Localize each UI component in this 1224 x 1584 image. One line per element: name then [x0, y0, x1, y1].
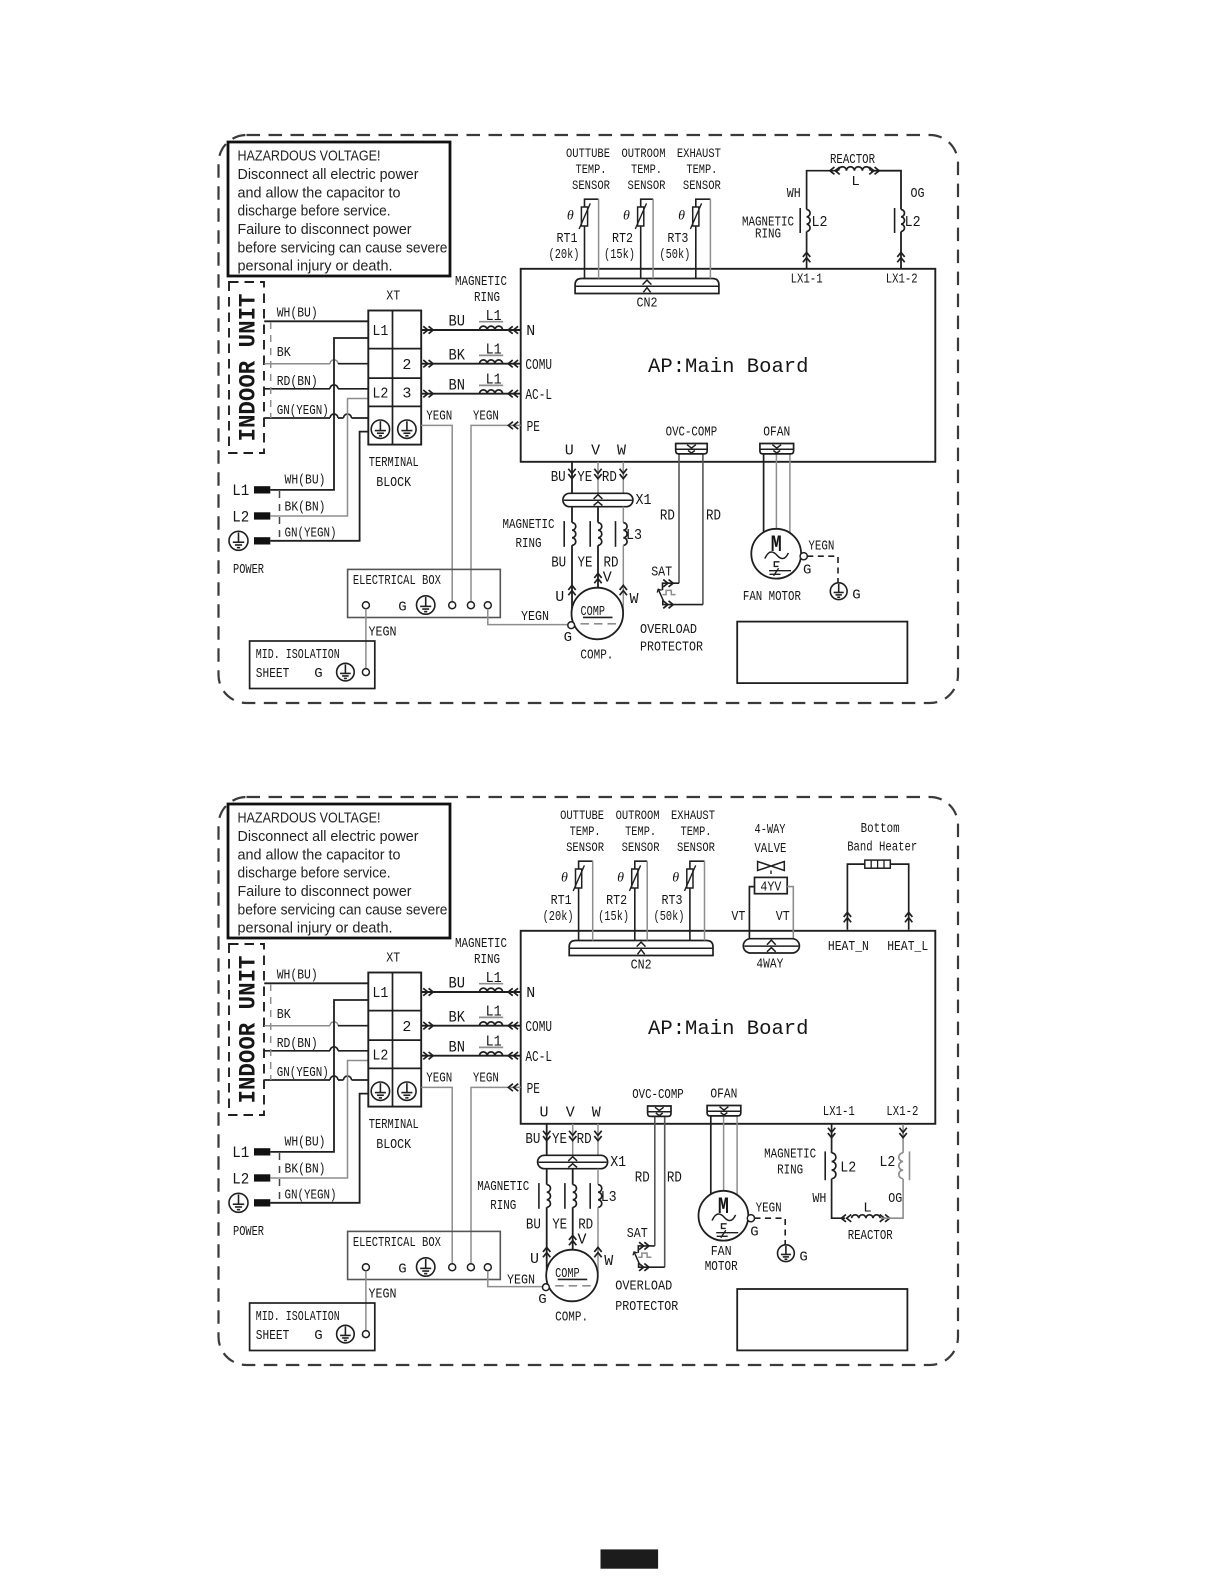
- arrows down on U V W wires: [568, 469, 575, 479]
- magnetic ring core bar over BK coil: [479, 1016, 503, 1018]
- svg-text:L1: L1: [486, 1004, 502, 1021]
- svg-text:Disconnect all electric power: Disconnect all electric power: [238, 166, 419, 183]
- wire YEGN from XT to electrical box: [421, 1087, 452, 1263]
- connector X1: [538, 1155, 608, 1168]
- svg-text:RT3: RT3: [667, 232, 688, 247]
- wire GN(YEGN) indoor unit to XT with two hops: [264, 1076, 368, 1080]
- svg-text:OG: OG: [888, 1192, 902, 1207]
- reactor inductor L: [839, 167, 871, 171]
- svg-text:OVERLOAD: OVERLOAD: [640, 623, 697, 638]
- arrow up on U compressor wire: [543, 1247, 550, 1257]
- svg-text:BLOCK: BLOCK: [376, 476, 412, 491]
- temp sensor RT2 leads: [635, 861, 647, 869]
- isolation sheet earth symbol: [337, 663, 355, 681]
- svg-text:L: L: [851, 174, 859, 190]
- compressor underline: [583, 616, 613, 618]
- wire HEAT_L heater to board: [890, 864, 908, 930]
- compressor motor circle COMP: [546, 1250, 598, 1302]
- wire W main board to X1: [597, 1124, 599, 1156]
- svg-text:YE: YE: [552, 1131, 567, 1148]
- svg-text:BK(BN): BK(BN): [285, 1162, 326, 1177]
- svg-text:4-WAY: 4-WAY: [755, 823, 786, 838]
- svg-text:MOTOR: MOTOR: [705, 1260, 738, 1275]
- compressor ground terminal circle: [543, 1284, 550, 1291]
- compressor dashed line: [555, 1285, 592, 1287]
- svg-text:4YV: 4YV: [760, 880, 782, 895]
- svg-text:L2: L2: [812, 214, 828, 231]
- svg-text:MID. ISOLATION: MID. ISOLATION: [256, 648, 340, 663]
- svg-text:TEMP.: TEMP.: [681, 824, 712, 839]
- svg-text:YEGN: YEGN: [756, 1202, 782, 1217]
- svg-text:(20k): (20k): [543, 910, 574, 925]
- svg-text:HEAT_N: HEAT_N: [828, 940, 869, 955]
- svg-text:BN: BN: [448, 376, 465, 394]
- svg-text:U: U: [539, 1104, 548, 1121]
- svg-text:AP:Main Board: AP:Main Board: [648, 356, 809, 379]
- terminal block XT outline: [368, 311, 421, 445]
- wire RD right OVC-COMP to overload protector: [702, 454, 704, 605]
- svg-text:G: G: [538, 1292, 546, 1308]
- wire OFAN right to fan motor: [789, 454, 791, 533]
- svg-text:L2: L2: [905, 214, 921, 231]
- wire reactor to L2 right: [871, 171, 901, 210]
- svg-text:(50k): (50k): [654, 910, 685, 925]
- svg-text:PROTECTOR: PROTECTOR: [640, 640, 703, 655]
- svg-text:SENSOR: SENSOR: [566, 840, 604, 855]
- arrows up on LX1-2 wire: [897, 252, 904, 262]
- svg-text:YEGN: YEGN: [473, 1072, 499, 1087]
- electrical box terminal circle YEGN to compressor: [484, 602, 491, 609]
- hazardous voltage warning box: [228, 804, 450, 938]
- nameplate blank box: [737, 622, 907, 684]
- svg-text:MAGNETIC: MAGNETIC: [477, 1180, 529, 1195]
- svg-text:G: G: [852, 588, 860, 604]
- svg-text:RD: RD: [635, 1170, 650, 1187]
- svg-text:RING: RING: [755, 227, 781, 242]
- wire YE coil to compressor: [572, 1207, 574, 1249]
- thermistor RT3 body: [693, 207, 699, 226]
- wire VT right 4YV to 4WAY connector: [787, 887, 793, 939]
- magnetic ring inductor L2 left: [832, 1153, 836, 1179]
- svg-text:YE: YE: [552, 1216, 567, 1233]
- svg-text:N: N: [526, 985, 535, 1002]
- electrical box terminal circle YEGN from XT: [449, 1264, 456, 1271]
- dashed link valve to 4YV coil: [770, 871, 772, 878]
- svg-text:ELECTRICAL BOX: ELECTRICAL BOX: [353, 574, 441, 589]
- svg-text:W: W: [592, 1104, 601, 1121]
- wire BK indoor unit to XT with hop: [264, 360, 338, 364]
- svg-text:AP:Main Board: AP:Main Board: [648, 1018, 809, 1041]
- svg-text:BU: BU: [525, 1131, 540, 1148]
- svg-text:TEMP.: TEMP.: [686, 162, 717, 177]
- inductor L1 on BK wire: [480, 1022, 503, 1026]
- wire PE from main board to electrical box: [471, 1087, 521, 1263]
- wire HEAT_N heater to board: [847, 864, 864, 930]
- indoor unit dashed box: [229, 944, 264, 1115]
- svg-text:G: G: [564, 630, 572, 646]
- svg-text:personal injury or death.: personal injury or death.: [238, 258, 393, 275]
- electrical box terminal circle YEGN from PE: [467, 1264, 474, 1271]
- svg-text:POWER: POWER: [233, 562, 264, 578]
- svg-text:WH(BU): WH(BU): [285, 473, 326, 488]
- XT divider lines: [368, 973, 421, 1107]
- svg-text:AC-L: AC-L: [525, 387, 552, 404]
- svg-text:OUTTUBE: OUTTUBE: [560, 808, 604, 823]
- svg-text:θ: θ: [561, 871, 568, 886]
- svg-text:FAN MOTOR: FAN MOTOR: [743, 590, 801, 605]
- svg-text:OVC-COMP: OVC-COMP: [666, 425, 718, 440]
- connector arrows right of reactor: [869, 167, 879, 174]
- svg-text:V: V: [566, 1104, 575, 1121]
- mid isolation sheet box: [250, 1303, 375, 1351]
- electrical box earth symbol: [417, 1258, 435, 1276]
- svg-text:SENSOR: SENSOR: [572, 178, 610, 193]
- svg-text:CN2: CN2: [631, 959, 652, 974]
- svg-text:WH(BU): WH(BU): [277, 306, 318, 321]
- svg-text:RT2: RT2: [612, 232, 633, 247]
- svg-text:L2: L2: [232, 1170, 249, 1188]
- svg-text:BK: BK: [448, 1008, 465, 1026]
- svg-text:L3: L3: [601, 1189, 617, 1206]
- svg-text:MAGNETIC: MAGNETIC: [503, 518, 555, 533]
- power cable bundle dashed tie: [279, 1153, 281, 1202]
- magnetic ring core bar over BN coil: [479, 1046, 503, 1048]
- wire YEGN from XT to electrical box: [421, 425, 452, 601]
- svg-text:YEGN: YEGN: [521, 610, 549, 625]
- svg-text:TEMP.: TEMP.: [625, 824, 656, 839]
- hazardous voltage warning box: [228, 142, 450, 276]
- svg-text:GN(YEGN): GN(YEGN): [285, 526, 337, 541]
- magnetic ring core bar over BN coil: [479, 384, 503, 386]
- svg-text:RT1: RT1: [557, 232, 578, 247]
- AP main board outline: [521, 269, 936, 462]
- svg-text:WH: WH: [787, 187, 801, 202]
- connector arrows on BU wire: [423, 326, 433, 333]
- compressor underline: [558, 1278, 588, 1280]
- wire V main board to X1: [597, 462, 599, 494]
- wire OFAN left to fan motor: [763, 454, 765, 532]
- svg-text:Bottom: Bottom: [861, 822, 900, 837]
- svg-text:G: G: [803, 562, 811, 578]
- lower diagram outer dashed border: [219, 797, 959, 1365]
- svg-text:OUTTUBE: OUTTUBE: [566, 146, 610, 161]
- wire OFAN middle to fan motor: [723, 1116, 725, 1191]
- svg-text:Disconnect all electric power: Disconnect all electric power: [238, 828, 419, 845]
- wire RD coil to compressor: [597, 1207, 599, 1273]
- overload protector switch SAT: [638, 1246, 655, 1253]
- svg-text:and allow the capacitor to: and allow the capacitor to: [238, 846, 401, 863]
- magnetic ring inductor on YE wire: [598, 523, 602, 546]
- connector arrows on BU wire: [423, 988, 433, 995]
- connector arrows on BN wire: [423, 390, 433, 397]
- wire WH(BU) indoor unit to XT: [264, 320, 368, 322]
- svg-text:X1: X1: [610, 1154, 626, 1171]
- svg-text:RING: RING: [516, 537, 542, 552]
- connector arrows on BK wire: [423, 1022, 433, 1029]
- electrical box terminal circle YEGN from XT: [449, 602, 456, 609]
- svg-text:YEGN: YEGN: [473, 410, 499, 425]
- svg-text:before servicing can cause sev: before servicing can cause severe: [238, 239, 448, 256]
- svg-text:L1: L1: [486, 970, 502, 987]
- svg-text:before servicing can cause sev: before servicing can cause severe: [238, 901, 448, 918]
- temp sensor RT3 leads: [696, 199, 711, 207]
- wire L1 power to XT row1: [270, 338, 368, 490]
- wire BK indoor unit to XT with hop: [264, 1022, 338, 1026]
- wire RD left OVC-COMP to overload protector: [678, 454, 680, 583]
- indoor unit dashed box: [229, 282, 264, 453]
- overload protector switch SAT: [663, 583, 680, 590]
- svg-text:L3: L3: [626, 527, 642, 544]
- wire BU XT to main board: [421, 329, 521, 331]
- ground earth symbol at fan motor: [778, 1245, 795, 1262]
- svg-text:(15k): (15k): [604, 248, 635, 263]
- svg-text:OVERLOAD: OVERLOAD: [615, 1279, 672, 1294]
- svg-text:θ: θ: [623, 209, 630, 224]
- wire BK XT to main board: [421, 1025, 521, 1027]
- svg-text:VALVE: VALVE: [754, 842, 786, 857]
- svg-text:MAGNETIC: MAGNETIC: [764, 1147, 816, 1162]
- svg-text:RD(BN): RD(BN): [277, 1037, 318, 1052]
- svg-text:OG: OG: [911, 187, 925, 202]
- arrows on SAT switch: [639, 1242, 649, 1249]
- svg-text:RT3: RT3: [662, 894, 683, 909]
- svg-text:HAZARDOUS VOLTAGE!: HAZARDOUS VOLTAGE!: [238, 810, 381, 827]
- svg-text:WH(BU): WH(BU): [277, 968, 318, 983]
- thermistor RT1 slash: [579, 203, 590, 229]
- wire OFAN left to fan motor: [710, 1116, 712, 1194]
- electrical box terminal circle YEGN from PE: [467, 602, 474, 609]
- svg-text:YEGN: YEGN: [369, 1288, 397, 1303]
- svg-text:G: G: [398, 1262, 406, 1278]
- svg-text:L1: L1: [486, 1034, 502, 1051]
- svg-text:L1: L1: [232, 482, 249, 500]
- thermistor RT1 slash: [573, 865, 584, 891]
- wire GN power to XT row4: [270, 432, 368, 541]
- electrical box terminal circle YEGN to compressor: [484, 1264, 491, 1271]
- wire BU XT to main board: [421, 991, 521, 993]
- terminal lug L1: [254, 1148, 270, 1155]
- dashed wire fan motor to ground: [807, 556, 838, 582]
- wire L2 power to XT row3: [270, 1061, 368, 1179]
- svg-text:V: V: [603, 570, 612, 587]
- wire YE coil to compressor: [597, 545, 599, 587]
- ground earth symbol at fan motor: [830, 583, 847, 600]
- electrical box terminal circle to isolation sheet: [362, 602, 369, 609]
- svg-text:RD: RD: [577, 1131, 592, 1148]
- wire PE from main board to electrical box: [471, 425, 521, 601]
- inductor L1 on BU wire: [480, 326, 503, 330]
- terminal lug L2: [254, 1174, 270, 1181]
- svg-text:G: G: [314, 666, 322, 682]
- svg-text:FAN: FAN: [711, 1245, 732, 1260]
- arrows down on U V W wires: [543, 1131, 550, 1141]
- svg-text:BU: BU: [526, 1216, 541, 1233]
- XT earth terminal left: [371, 420, 389, 438]
- svg-text:WH(BU): WH(BU): [285, 1135, 326, 1150]
- thermistor RT3 body: [687, 869, 693, 888]
- svg-text:and allow the capacitor to: and allow the capacitor to: [238, 184, 401, 201]
- svg-text:GN(YEGN): GN(YEGN): [277, 1066, 329, 1081]
- fan motor ground terminal circle: [800, 553, 807, 560]
- svg-text:YE: YE: [577, 469, 592, 486]
- svg-text:LX1-2: LX1-2: [886, 1105, 918, 1120]
- svg-text:G: G: [314, 1328, 322, 1344]
- svg-text:G: G: [750, 1224, 758, 1240]
- connector 4WAY: [743, 939, 799, 953]
- fan motor internal protector glyph: [722, 1224, 727, 1229]
- terminal lug GN: [254, 537, 270, 544]
- svg-text:HEAT_L: HEAT_L: [887, 940, 928, 955]
- arrow up on W compressor wire: [620, 585, 627, 595]
- svg-text:SAT: SAT: [627, 1227, 648, 1242]
- svg-text:RD(BN): RD(BN): [277, 375, 318, 390]
- svg-text:BLOCK: BLOCK: [376, 1138, 412, 1153]
- isolation sheet terminal circle: [362, 669, 369, 676]
- svg-text:INDOOR UNIT: INDOOR UNIT: [236, 955, 262, 1103]
- wire BN XT to main board: [421, 1055, 521, 1057]
- svg-text:EXHAUST: EXHAUST: [677, 146, 721, 161]
- magnetic ring core bar over BU coil: [479, 983, 503, 985]
- svg-text:discharge before service.: discharge before service.: [238, 865, 391, 882]
- wire YEGN electrical box to compressor ground: [488, 1271, 543, 1287]
- svg-text:GN(YEGN): GN(YEGN): [285, 1188, 337, 1203]
- wire BN XT to main board: [421, 393, 521, 395]
- svg-text:L2: L2: [232, 508, 249, 526]
- temp sensor RT1 leads: [585, 199, 599, 207]
- svg-text:W: W: [604, 1253, 613, 1270]
- isolation sheet terminal circle: [362, 1331, 369, 1338]
- svg-text:GN(YEGN): GN(YEGN): [277, 404, 329, 419]
- svg-text:PROTECTOR: PROTECTOR: [615, 1300, 678, 1315]
- svg-text:COMU: COMU: [525, 357, 552, 374]
- 4-way valve bowtie symbol: [758, 862, 785, 871]
- wire W main board to X1: [622, 462, 624, 494]
- arrows down on LX1-2 wire: [899, 1128, 906, 1138]
- svg-text:V: V: [577, 1232, 586, 1249]
- svg-text:BK: BK: [448, 346, 465, 364]
- inductor L1 on BN wire: [480, 390, 503, 394]
- svg-text:TEMP.: TEMP.: [570, 824, 601, 839]
- electrical box outline: [348, 1231, 501, 1279]
- svg-text:VT: VT: [776, 910, 790, 925]
- wire YE X1 to compressor coil: [597, 507, 599, 523]
- XT earth terminal right: [398, 1082, 416, 1100]
- svg-text:θ: θ: [567, 209, 574, 224]
- wire L2 power to XT row3: [270, 399, 368, 517]
- svg-text:TERMINAL: TERMINAL: [369, 456, 419, 471]
- svg-text:YE: YE: [578, 554, 593, 571]
- fan motor sine wave: [765, 552, 789, 559]
- arrows up on LX1-1 wire: [803, 252, 810, 262]
- thermistor RT1 body: [576, 869, 582, 888]
- svg-text:RT2: RT2: [606, 894, 627, 909]
- inductor L1 on BK wire: [480, 360, 503, 364]
- svg-text:N: N: [526, 323, 535, 340]
- power earth symbol: [229, 531, 248, 550]
- wire BU X1 to compressor coil: [546, 1169, 548, 1185]
- wire VT left 4YV to 4WAY connector: [749, 887, 754, 939]
- isolation sheet earth symbol: [337, 1325, 355, 1343]
- fan motor internal protector glyph: [774, 562, 779, 567]
- svg-text:TEMP.: TEMP.: [576, 162, 607, 177]
- wire L2 right to LX1-2: [900, 232, 902, 269]
- svg-text:REACTOR: REACTOR: [848, 1229, 893, 1244]
- magnetic ring inductor on BU wire: [547, 1185, 551, 1208]
- svg-text:discharge before service.: discharge before service.: [238, 203, 391, 220]
- magnetic ring inductor L2 left: [807, 210, 810, 232]
- connector arrows on PE wire: [508, 422, 518, 429]
- svg-text:MAGNETIC: MAGNETIC: [455, 937, 507, 952]
- svg-text:(15k): (15k): [598, 910, 629, 925]
- inductor L1 on BN wire: [480, 1052, 503, 1056]
- XT earth terminal left: [371, 1082, 389, 1100]
- magnetic ring inductor on YE wire: [573, 1185, 577, 1208]
- thermistor RT2 slash: [635, 203, 646, 229]
- thermistor RT2 body: [632, 869, 638, 888]
- svg-text:LX1-2: LX1-2: [886, 273, 918, 288]
- svg-text:RING: RING: [777, 1163, 803, 1178]
- electrical box terminal circle to isolation sheet: [362, 1264, 369, 1271]
- footer black marker: [601, 1549, 659, 1568]
- svg-text:RING: RING: [474, 953, 500, 968]
- svg-text:COMU: COMU: [525, 1019, 552, 1036]
- fan motor ground terminal circle: [747, 1215, 754, 1222]
- svg-text:L2: L2: [372, 386, 388, 403]
- svg-text:OUTROOM: OUTROOM: [622, 146, 666, 161]
- svg-text:U: U: [555, 589, 564, 606]
- svg-text:L1: L1: [486, 342, 502, 359]
- electrical box earth symbol: [417, 596, 435, 614]
- connector OFAN: [707, 1106, 741, 1116]
- arrows down on LX1-1 wire: [828, 1128, 835, 1138]
- fan motor circle: [751, 529, 801, 579]
- fan motor circle: [699, 1191, 749, 1241]
- svg-text:SAT: SAT: [651, 566, 672, 581]
- reactor inductor L: [852, 1215, 881, 1218]
- magnetic ring inductor L3 on RD wire: [623, 523, 627, 546]
- svg-text:L1: L1: [232, 1144, 249, 1162]
- wire GN(YEGN) indoor unit to XT with two hops: [264, 414, 368, 418]
- svg-text:RD: RD: [706, 507, 721, 524]
- wire RD X1 to compressor coil: [597, 1169, 599, 1185]
- wire RD(BN) indoor unit to XT with hop: [264, 385, 368, 389]
- connector arrows on PE wire: [508, 1084, 518, 1091]
- compressor ground terminal circle: [568, 622, 575, 629]
- connector arrows on BK wire: [423, 360, 433, 367]
- svg-text:LX1-1: LX1-1: [791, 273, 823, 288]
- power earth symbol: [229, 1193, 248, 1212]
- svg-text:W: W: [629, 591, 638, 608]
- magnetic ring inductor L3 on RD wire: [598, 1185, 602, 1208]
- svg-text:YEGN: YEGN: [426, 1072, 452, 1087]
- wire LX1-1 to magnetic ring L2 left: [806, 232, 808, 269]
- svg-text:4WAY: 4WAY: [756, 958, 783, 973]
- svg-text:θ: θ: [678, 209, 685, 224]
- svg-text:L1: L1: [372, 985, 388, 1002]
- svg-text:L2: L2: [840, 1159, 856, 1176]
- svg-text:PE: PE: [527, 419, 540, 436]
- svg-text:RT1: RT1: [551, 894, 572, 909]
- svg-text:HAZARDOUS VOLTAGE!: HAZARDOUS VOLTAGE!: [238, 148, 381, 165]
- svg-text:BU: BU: [551, 554, 566, 571]
- bottom band heater element: [865, 860, 891, 868]
- connector OFAN: [760, 444, 794, 454]
- svg-text:W: W: [617, 442, 626, 459]
- svg-text:YEGN: YEGN: [808, 540, 834, 555]
- svg-text:INDOOR UNIT: INDOOR UNIT: [236, 293, 262, 441]
- compressor motor circle COMP: [572, 588, 624, 640]
- wire BU coil to compressor: [571, 545, 573, 608]
